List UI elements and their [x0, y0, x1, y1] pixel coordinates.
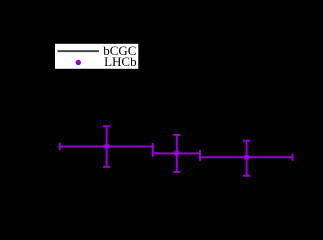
data point 1 right cap — [152, 143, 154, 150]
data point 3 marker — [244, 154, 250, 160]
data point 2 top cap — [173, 134, 180, 136]
data point 2 horizontal error bar — [153, 152, 200, 154]
data point 1 left cap — [59, 143, 61, 150]
data point 1 horizontal error bar — [60, 146, 153, 148]
data point 1 marker — [104, 143, 110, 149]
svg-text:LHCb: LHCb — [104, 54, 137, 69]
data point 2 marker — [174, 150, 180, 156]
legend line sample bCGC — [58, 50, 100, 52]
data point 2 right cap — [199, 150, 201, 157]
data point 3 horizontal error bar — [200, 156, 293, 158]
data point 3 vertical error bar — [246, 141, 248, 176]
data point 1 top cap — [103, 125, 110, 127]
data point 2 vertical error bar — [176, 135, 178, 172]
data point 3 left cap — [199, 154, 201, 161]
data point 2 bottom cap — [173, 171, 180, 173]
data point 2 left cap — [152, 150, 154, 157]
data point 3 top cap — [243, 140, 250, 142]
legend box — [55, 44, 138, 69]
data point 1 vertical error bar — [106, 126, 108, 167]
legend marker LHCb — [76, 60, 81, 65]
data point 3 bottom cap — [243, 175, 250, 177]
data point 3 right cap — [292, 154, 294, 161]
data point 1 bottom cap — [103, 166, 110, 168]
